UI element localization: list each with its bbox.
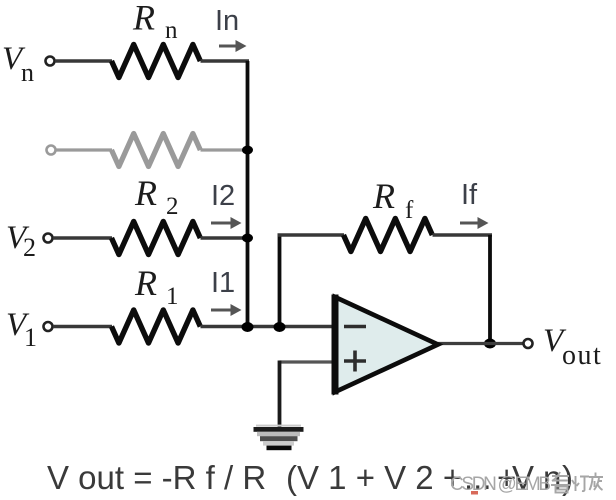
svg-text:I1: I1 bbox=[211, 267, 235, 299]
svg-text:out: out bbox=[562, 340, 602, 371]
svg-text:1: 1 bbox=[166, 283, 179, 310]
svg-text:n: n bbox=[165, 17, 178, 44]
svg-text:2: 2 bbox=[23, 233, 36, 262]
svg-text:V out = -R f / R: V out = -R f / R bbox=[47, 459, 266, 496]
svg-text:(V 1 + V 2 +: (V 1 + V 2 + bbox=[286, 459, 462, 496]
svg-text:CSDN @EMB: CSDN @EMB bbox=[450, 474, 551, 495]
svg-text:If: If bbox=[461, 179, 478, 211]
svg-text:1: 1 bbox=[24, 323, 37, 352]
svg-text:I2: I2 bbox=[211, 180, 235, 212]
svg-text:2: 2 bbox=[166, 193, 179, 220]
svg-text:R: R bbox=[132, 0, 155, 38]
svg-text:R: R bbox=[134, 263, 157, 303]
svg-text:R: R bbox=[134, 173, 157, 213]
svg-text:f: f bbox=[405, 197, 414, 224]
svg-text:In: In bbox=[215, 5, 239, 37]
svg-text:n: n bbox=[21, 58, 34, 87]
svg-text:R: R bbox=[372, 176, 395, 216]
